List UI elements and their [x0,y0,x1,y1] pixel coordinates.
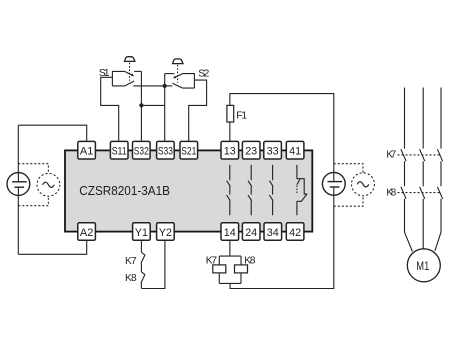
fuse F1 [227,105,234,122]
svg-text:CZSR8201-3A1B: CZSR8201-3A1B [79,183,170,198]
svg-text:A1: A1 [80,146,93,158]
contact NO 23-24 [248,165,252,215]
wire S2 output lead to S21 [189,80,207,141]
wire dashed connector right supply [334,164,363,207]
coil K8 [235,265,248,273]
svg-text:Y2: Y2 [159,227,172,239]
wire left supply loop top (supply to A1) [18,125,86,141]
svg-text:Y1: Y1 [135,227,148,239]
motor M1 circle [407,249,440,282]
svg-text:13: 13 [224,146,236,158]
wire right supply return bottom [230,195,334,288]
svg-text:14: 14 [224,227,236,239]
power supply G4 AC circle right (dashed) [352,173,375,196]
terminal 13 [221,141,239,159]
svg-text:S32: S32 [134,146,149,158]
power supply G1 DC circle [7,173,30,196]
svg-text:S21: S21 [181,146,196,158]
wire cross link (H2) [141,104,164,106]
svg-text:K7: K7 [386,149,396,160]
contact K8 NC (feedback) [141,272,145,289]
terminal 24 [242,223,260,241]
wire S1 output to S32 [140,71,142,141]
svg-text:23: 23 [245,146,257,158]
coil K7 [213,265,226,273]
contact K7 NC (feedback) [141,252,145,272]
svg-text:S33: S33 [158,146,173,158]
label terminal texts bottom row [80,227,301,239]
dashed link K8 contactor poles [398,192,442,194]
pushbutton S2 mushroom head [173,59,183,64]
svg-text:M1: M1 [416,259,429,273]
relay module U1 body [65,150,312,231]
wire Y1 feedback drop [140,240,142,252]
svg-text:S2: S2 [198,67,209,79]
terminal A1 [78,141,96,159]
svg-text:42: 42 [289,227,301,239]
svg-text:S11: S11 [112,146,127,158]
pushbutton S2 actuator dashed link [177,65,179,83]
wire dashed connector left supply [18,164,48,206]
svg-text:K7: K7 [125,256,137,267]
three-phase line L3 [435,88,443,251]
dashed link K7 contactor poles [398,154,442,156]
terminal Y2 [157,223,175,241]
terminal Y1 [133,223,151,241]
terminal 14 [221,223,239,241]
terminal 33 [264,141,282,159]
label terminal texts top row [80,146,301,158]
terminal 23 [242,141,260,159]
terminal S33 [157,141,175,159]
terminal S32 [133,141,151,159]
wire feedback return to Y2 [141,240,165,288]
terminal S21 [180,141,198,159]
node junction dot on H1 [163,84,167,88]
terminal 41 [286,141,304,159]
node junction dot on H2 [139,103,143,107]
terminal 42 [286,223,304,241]
svg-text:34: 34 [267,227,279,239]
contact NO 33-34 [269,165,273,215]
pushbutton S1 contact body [112,71,141,86]
power supply G2 AC circle (dashed alternative) [37,173,60,196]
pushbutton S1 actuator dashed link [129,63,131,81]
wire left supply loop bottom (to A2) [18,240,86,254]
pushbutton S1 mushroom head [125,57,135,62]
three-phase line L2 [420,88,425,249]
wire link S1 to S2 (H1) [133,85,172,87]
contact NC 41-42 [297,165,307,215]
svg-text:S1: S1 [99,67,110,79]
svg-text:41: 41 [289,146,301,158]
svg-text:K8: K8 [125,273,137,284]
wire S1 input lead [101,77,119,141]
svg-text:24: 24 [245,227,257,239]
svg-text:A2: A2 [80,227,93,239]
wire left supply vertical [17,125,19,254]
power supply G3 DC circle right [322,172,345,195]
contact NO 13-14 [227,165,231,215]
terminal 34 [264,223,282,241]
three-phase line L1 [401,88,413,252]
terminal A2 [78,223,96,241]
pushbutton S2 contact body [165,74,195,89]
svg-text:F1: F1 [236,110,247,122]
svg-text:K7: K7 [206,256,218,267]
wire 14 to coils [219,240,241,265]
svg-text:K8: K8 [386,187,396,198]
svg-text:K8: K8 [244,256,256,267]
wire coils join [219,273,241,284]
svg-text:33: 33 [267,146,279,158]
terminal S11 [110,141,128,159]
wire S2 input to S33 [164,74,166,142]
wire from 13 up through F1 to right supply [230,94,334,173]
